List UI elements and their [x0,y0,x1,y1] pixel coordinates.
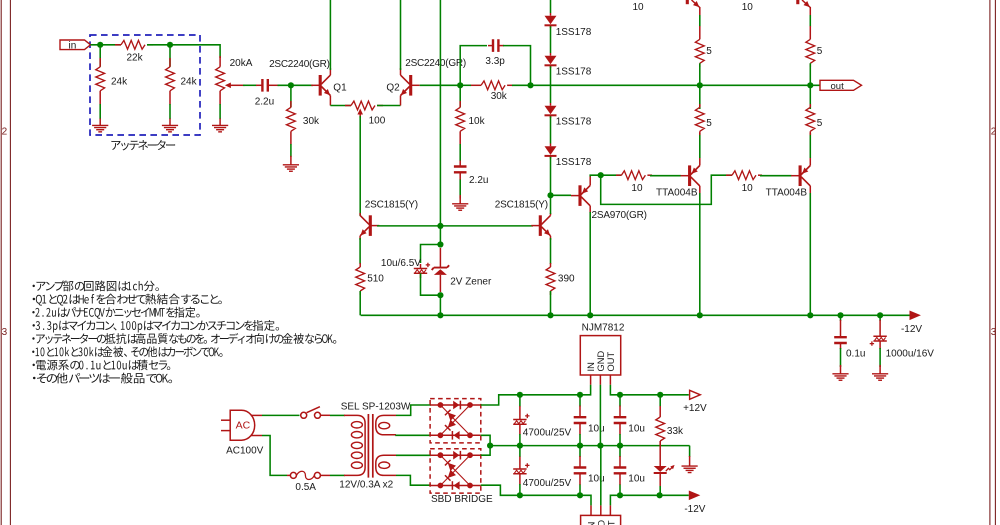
transistor fragment top col2 [796,0,799,4]
wire tx sec1 top [396,405,431,415]
wire bridge2 plus out [481,446,490,456]
svg-text:33k: 33k [667,426,684,437]
wire raw minus rail [520,494,581,496]
wire tx sec1 bot [396,434,431,437]
wire 7912 GND [600,446,602,506]
capacitor 10u upper a [574,417,587,423]
svg-text:AC100V: AC100V [226,446,264,457]
wire 7912 IN [580,495,591,505]
svg-text:-12V: -12V [901,324,922,335]
transistor TTA004B Q7 [799,165,802,186]
capacitor 2.2u input [262,79,267,92]
ground 0.1u [840,365,842,374]
wire Q2 base to node C [420,84,461,86]
svg-text:10k: 10k [469,116,486,127]
junction rail c1000 [877,312,883,318]
svg-text:10u/6.5V: 10u/6.5V [381,258,421,269]
svg-text:5: 5 [706,46,712,57]
wire 10u b1 top [619,395,621,407]
junction node A [97,42,103,48]
attenuator dashed box [90,35,200,135]
LED bottom lead [659,474,661,486]
svg-text:30k: 30k [303,116,320,127]
svg-text:SEL SP-1203W: SEL SP-1203W [341,401,411,412]
resistor 5 lower a [695,107,704,131]
frame border left [1,0,10,525]
resistor 390 [546,267,555,291]
svg-text:3: 3 [2,327,8,338]
svg-text:2SA970(GR): 2SA970(GR) [592,210,647,221]
wire node E to Q5 base [551,194,572,196]
svg-text:out: out [831,81,845,92]
capacitor 0.1u [834,337,847,343]
wire 24k left to ground [99,104,101,119]
regulator NJM7912 box [581,515,621,525]
wire mid rail to ground [689,446,691,457]
wire R10b to Q7 base [760,175,792,177]
wire chain top [550,0,552,13]
wire node F loop [601,175,732,204]
wire pot to ground [219,104,221,119]
svg-text:100: 100 [369,116,386,127]
wire 390 to rail [550,291,552,315]
junction node D [527,82,533,88]
power arrow -12V amp [910,311,921,321]
junction rail 390 [547,312,553,318]
wire tx sec2 top [396,454,431,456]
junction zener top [437,241,443,247]
diode D2 1SS178 [545,56,557,65]
NJM7812 pin leads [591,375,611,385]
svg-text:10: 10 [633,2,645,13]
wire node C down to 10k [459,85,461,107]
wire 30k to ground [290,144,292,157]
capacitor 2.2u decouple [454,167,467,173]
svg-text:2.2u: 2.2u [255,96,274,107]
resistor 5 lower b [806,107,815,131]
wire node B down [169,45,171,67]
ground psu [689,456,691,466]
svg-text:10u: 10u [588,474,605,485]
junction node B [167,42,173,48]
wire 2.2u to ground [459,180,461,199]
svg-text:-12V: -12V [684,504,705,515]
wire cap branch top [421,245,441,264]
resistor 10 base b [732,171,756,180]
resistor 5 upper a [695,39,704,63]
svg-text:TTA004B: TTA004B [766,188,808,199]
wire R10a to Q6 base [650,175,681,177]
transformer SEL SP-1203W [344,415,365,475]
wire 33k to LED [659,441,661,466]
port in [60,40,91,50]
wire Q6 collector down [699,193,701,315]
svg-text:2SC1815(Y): 2SC1815(Y) [495,199,548,210]
svg-text:OUT: OUT [606,352,616,372]
wire 10u b1 bot [619,434,621,446]
svg-text:390: 390 [558,274,575,285]
AC plug prong top [221,419,230,421]
wire 10u b2 top [619,446,621,457]
fuse 0.5A [287,474,290,476]
resistor 30k fb [481,81,505,90]
wire 24k right to ground [169,104,171,119]
wire Q5 emitter to node F [590,175,601,176]
note line 5 [32,333,336,344]
svg-text:GND: GND [596,520,606,525]
wire tx sec2 bot [396,475,431,485]
svg-text:5: 5 [817,46,823,57]
svg-text:12V/0.3A x2: 12V/0.3A x2 [339,479,393,490]
wire 10u a1 bot [579,434,581,446]
wire 7812 IN [580,385,591,395]
resistor 30k base [287,107,296,131]
wire 4700u-b bot [519,484,521,495]
wire 3.3p loop [460,46,487,86]
svg-text:30k: 30k [491,91,508,102]
svg-text:3: 3 [991,327,997,338]
wire 22k to node B [147,45,220,58]
wire node A down [99,45,101,67]
wire node F to R10a [601,174,622,176]
svg-text:NJM7812: NJM7812 [582,322,625,333]
svg-text:Q1: Q1 [333,82,347,93]
ground 1000u [879,365,881,374]
transistor 2SA970 Q5 [578,185,581,206]
ground pot [219,119,221,126]
junction node E [547,192,553,198]
junction rawm 10u a [577,492,583,498]
wire 10k to 2.2u [459,144,461,161]
svg-text:0.1u: 0.1u [846,348,865,359]
wire 33k top lead [659,395,661,407]
capacitor 3.3p [493,39,498,52]
note line 2 [33,294,222,306]
resistor 22k [121,40,145,49]
svg-text:2SC2240(GR): 2SC2240(GR) [405,58,466,69]
note line 7 [32,359,170,370]
wire 4700u-a top [519,395,521,407]
svg-text:2: 2 [991,127,997,138]
transistor 2SC1815 Q3 [369,215,372,236]
diode D3 1SS178 [545,106,557,115]
svg-text:OUT: OUT [606,520,616,525]
note line 3 [32,307,199,319]
svg-text:4700u/25V: 4700u/25V [523,478,572,489]
capacitor 1000u/16V [873,336,886,341]
transistor TTA004B Q6 [688,165,691,186]
wire D1-D2 [550,26,552,53]
potentiometer 20kA [216,67,225,91]
svg-text:10: 10 [631,183,643,194]
svg-text:IN: IN [586,362,596,371]
svg-text:5: 5 [706,118,712,129]
svg-text:10u: 10u [588,424,605,435]
svg-text:TTA004B: TTA004B [656,188,698,199]
wire 4700u-a bot [519,434,521,446]
junction rawm 10u b [617,492,623,498]
wire node down to R 30k [290,85,292,107]
capacitor 4700u/25V lower [513,469,526,474]
transistor 2SC1815 Q4 [539,215,542,236]
wire top col1 [699,15,701,27]
wire R100 to Q2 emitter [377,105,401,107]
wire D3-D4 [550,116,552,143]
SBD bridge lower [430,449,481,493]
wire cap branch bottom [421,273,441,295]
svg-text:0.5A: 0.5A [295,482,316,493]
junction mid 4700u [517,443,523,449]
wire switch to transformer [330,414,345,416]
port +12V arrow [690,390,701,399]
svg-text:Q2: Q2 [386,82,400,93]
svg-text:2.2u: 2.2u [469,175,488,186]
capacitor 4700u/25V upper [513,420,526,425]
wire mirror base bus [377,225,533,227]
wire zener node to rail [439,295,441,315]
wire 4700u-b top [519,446,521,457]
svg-text:2SC1815(Y): 2SC1815(Y) [365,199,418,210]
resistor 510 [356,267,365,291]
capacitor 10u lower a [574,468,587,474]
capacitor 10u upper b [614,417,627,423]
wire Q1 collector up [329,0,331,70]
svg-text:1SS178: 1SS178 [556,157,592,168]
svg-text:10u: 10u [628,424,645,435]
wire Q6 emitter up [699,133,701,158]
junction node C [457,82,463,88]
wire Q5 collector down [589,212,591,315]
wire raw plus rail [520,394,580,396]
junction rawp 10u b [617,392,623,398]
svg-text:2: 2 [2,127,8,138]
wire 510 to rail [359,291,361,315]
wire col1 mid [699,63,701,109]
wire Q7 emitter up [809,133,811,158]
regulator NJM7812 box [580,336,620,375]
resistor 5 upper b [806,39,815,63]
wire col2 mid [809,63,811,109]
AC plug [230,410,255,440]
wire 7912 OUT [610,495,620,505]
wire tail current rail [359,116,361,216]
wire 10u a2 top [579,446,581,457]
transistor fragment top col1 [686,0,689,4]
switch SW [301,412,307,418]
wire 10u a2 bot [579,485,581,496]
wire 0.1u bottom [840,348,842,367]
wire +12V rail [620,394,689,396]
junction rail q6 [697,312,703,318]
transistor Q2 2SC2240 [409,75,412,96]
wire -12V rail [361,314,910,316]
pot wiper lead [230,84,246,86]
junction mirror base node [437,223,443,229]
wire Q1 emitter to R100 [330,105,351,107]
wire bridge1 plus out [481,395,520,405]
resistor 100 emitter [351,101,375,110]
SBD bridge upper [430,399,481,443]
resistor 24k right [166,67,175,91]
svg-text:20kA: 20kA [230,58,253,69]
svg-text:in: in [69,41,77,52]
junction mid 10u a [577,443,583,449]
svg-text:2V Zener: 2V Zener [450,277,492,288]
wire mirror rail x440 [439,0,441,226]
svg-text:2SC2240(GR): 2SC2240(GR) [269,59,330,70]
resistor 10 base a [621,171,645,180]
port out [820,80,862,90]
svg-text:24k: 24k [181,77,198,88]
svg-text:1000u/16V: 1000u/16V [886,348,935,359]
wire 10u b2 bot [619,485,621,496]
capacitor 10u/6.5V [414,269,427,274]
wire base node down [439,226,441,245]
wire 1000u bottom [879,348,881,367]
NJM7912 pin leads [591,505,610,515]
LED pilot [654,466,667,472]
junction node F [598,172,604,178]
svg-text:510: 510 [367,274,384,285]
svg-text:1SS178: 1SS178 [556,67,592,78]
junction zener bottom [437,292,443,298]
wire -12V out rail [621,494,689,496]
junction out col1 [697,82,703,88]
ground 30k [290,156,292,165]
frame border right [990,0,996,525]
svg-text:10: 10 [742,2,754,13]
svg-text:5: 5 [817,118,823,129]
svg-text:24k: 24k [111,77,128,88]
wire D2-D3 [550,66,552,103]
wire 1000u top [879,315,881,321]
wire out line [531,84,821,86]
wire mid rail [490,445,689,447]
svg-text:22k: 22k [127,52,144,63]
junction rawp 4700u [517,392,523,398]
port -12V arrow [689,491,701,501]
svg-text:1SS178: 1SS178 [556,117,592,128]
resistor 33k [656,417,665,441]
diode D1 1SS178 [545,16,557,25]
wire 7812 OUT [610,385,620,395]
junction rawm 4700u [517,492,523,498]
wire node C to 30k [460,84,471,86]
label attenuator (katakana) [111,140,175,150]
note line 6 [32,346,222,357]
junction 33k top [657,392,663,398]
capacitor 10u lower b [614,468,627,474]
wire plug to switch [262,414,300,416]
svg-text:1SS178: 1SS178 [556,27,592,38]
AC plug lead bottom [251,435,262,437]
junction bridge mid [487,443,493,449]
resistor 10k [456,107,465,131]
junction led bottom rail [657,492,663,498]
wire wiper to C1 [243,84,257,86]
AC plug prong bottom [221,430,230,432]
note line 4 [32,320,279,333]
wire 0.1u top [840,315,842,321]
ground 2.2u [459,195,461,204]
junction mid 10u b [617,443,623,449]
resistor 24k left [96,67,105,91]
ground attenuator left [99,119,101,126]
wire plug down to fuse [262,436,287,476]
wire bridge1 minus out [481,435,490,445]
wire 3.3p to node D [503,46,531,86]
wire Q4 collector up [550,195,552,214]
wire in to node A [91,44,122,46]
svg-text:3.3p: 3.3p [485,56,505,67]
svg-text:SBD BRIDGE: SBD BRIDGE [431,494,493,505]
wire Q3 emitter to 510 [359,238,361,264]
zener diode 2V [432,265,449,270]
junction rawp 10u a [577,392,583,398]
note line 1 [32,280,158,291]
wire 10u a1 top [579,395,581,407]
svg-text:10: 10 [742,183,754,194]
wire Q7 collector down [809,193,811,315]
svg-text:GND: GND [596,351,606,372]
junction Q1 base node [288,82,294,88]
wire LED to rail [659,486,661,495]
ground attenuator right [169,119,171,126]
wire bridge2 minus out [481,485,520,495]
svg-text:4700u/25V: 4700u/25V [523,427,572,438]
diode D4 1SS178 [545,146,557,155]
wire 30k to node D [512,84,531,86]
transistor Q1 2SC2240 [319,75,322,96]
junction out col2 [807,82,813,88]
AC plug lead top [251,414,262,416]
wire D4 to node E [550,157,552,195]
note line 8 [33,373,172,384]
junction mid GND pins [597,443,603,449]
junction rail zener [437,312,443,318]
svg-text:+12V: +12V [683,403,707,414]
junction rail c01 [837,312,843,318]
wire fuse to transformer [330,474,345,476]
wire top col2 [809,15,811,27]
wire C1 to Q1 base [278,84,314,86]
wire Q4 emitter to 390 [550,238,552,264]
wire 7812 GND [599,385,601,446]
wire Q2 collector up [400,0,402,70]
svg-text:10u: 10u [628,474,645,485]
junction rail q7 [807,312,813,318]
junction rail q5 [587,312,593,318]
svg-text:AC: AC [236,420,251,432]
